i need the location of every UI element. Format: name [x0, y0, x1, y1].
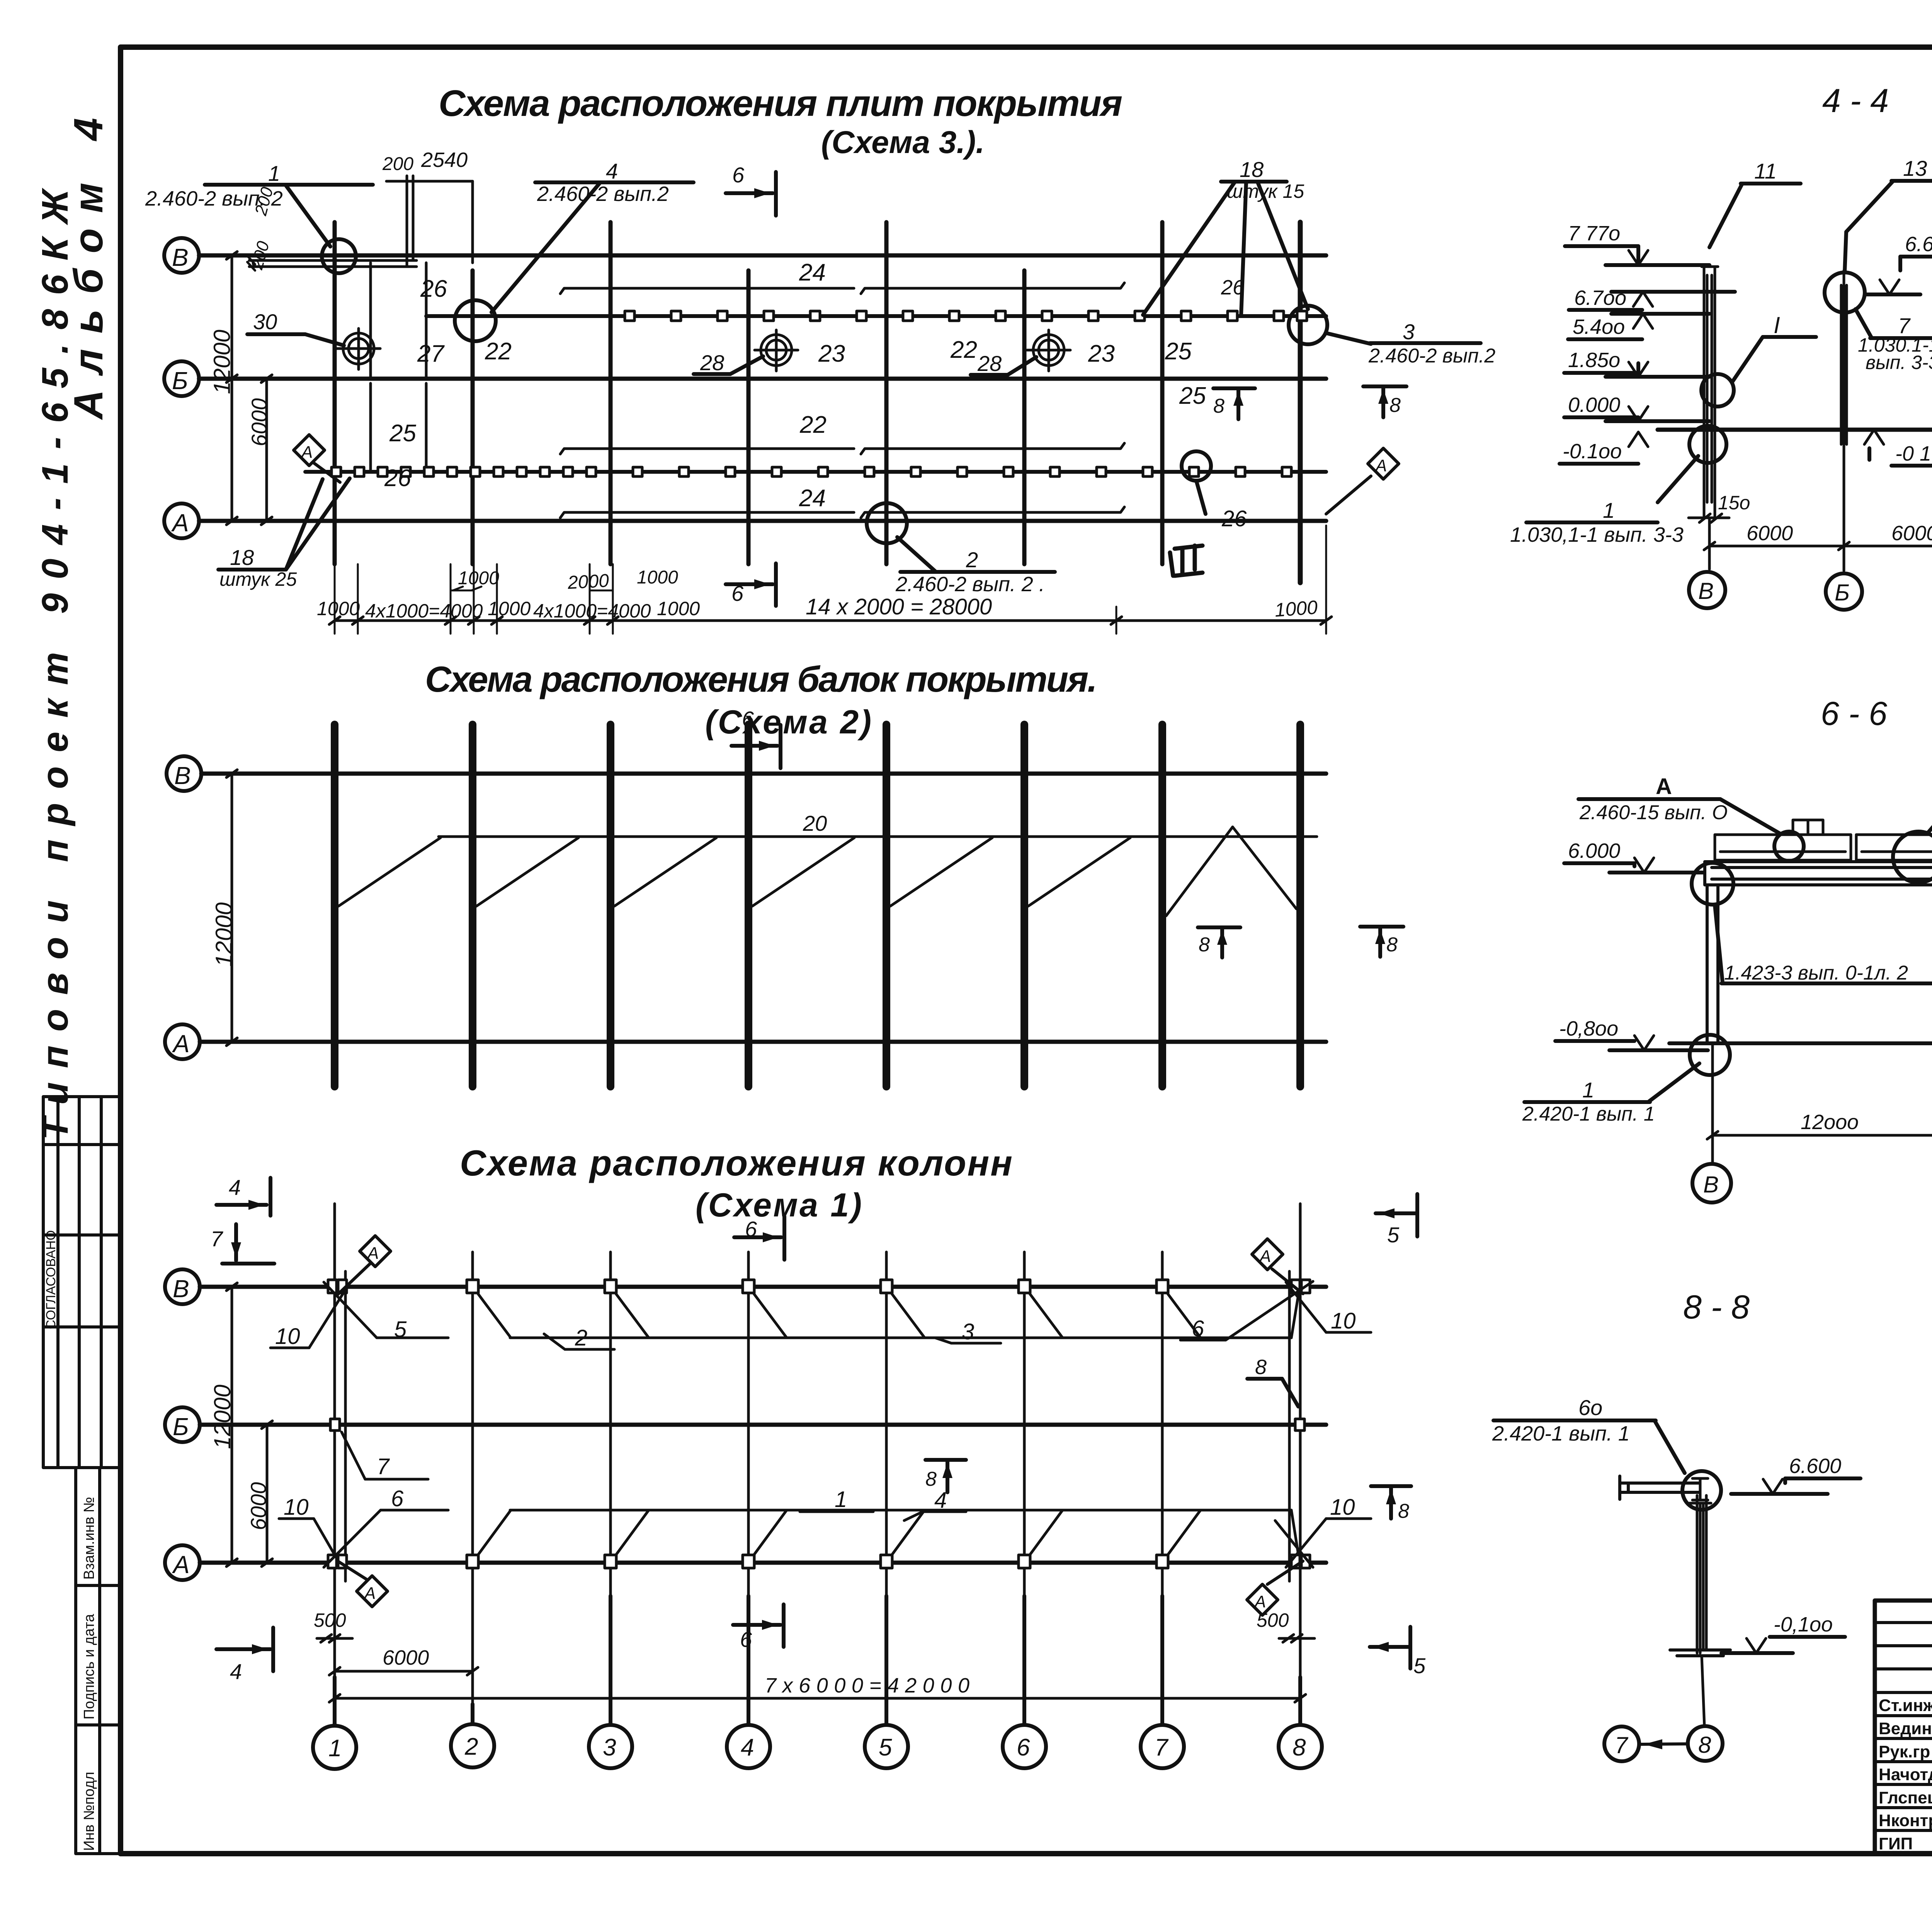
dim 500 left — [314, 1586, 352, 1677]
title scheme 3 — [439, 83, 1122, 160]
svg-text:2: 2 — [966, 548, 978, 572]
svg-text:I: I — [1774, 312, 1780, 338]
SECTION: scheme1 — [165, 1143, 1426, 1769]
diamond A left — [294, 435, 340, 482]
svg-text:10: 10 — [284, 1495, 309, 1520]
svg-text:1000: 1000 — [1274, 596, 1318, 621]
svg-text:26: 26 — [420, 276, 447, 302]
svg-text:6: 6 — [740, 1627, 752, 1652]
section mark 6 — [731, 707, 781, 768]
svg-text:25: 25 — [1165, 338, 1192, 365]
axis bubbles В Б А — [1689, 572, 1932, 610]
column B (section) — [1702, 267, 1718, 516]
grid bubble B — [165, 1269, 200, 1304]
detail circle top right — [1893, 832, 1932, 883]
svg-text:500: 500 — [314, 1609, 346, 1631]
svg-text:2000: 2000 — [567, 570, 610, 593]
svg-text:11: 11 — [1754, 159, 1777, 183]
svg-text:10: 10 — [275, 1324, 300, 1349]
detail circle B mid — [1701, 374, 1734, 407]
diamond A row A left — [338, 1561, 388, 1607]
svg-text:Нконтр: Нконтр — [1879, 1811, 1932, 1830]
svg-text:4: 4 — [934, 1488, 947, 1513]
svg-text:1000: 1000 — [657, 598, 700, 619]
svg-text:20: 20 — [803, 811, 827, 835]
svg-text:1000: 1000 — [488, 598, 531, 619]
elevation 1.850 — [1564, 349, 1709, 377]
svg-text:4: 4 — [606, 159, 618, 183]
svg-text:6.600: 6.600 — [1789, 1454, 1841, 1478]
dim 500 right — [1257, 1586, 1315, 1677]
section mark 5 top right — [1376, 1194, 1417, 1247]
svg-text:ГИП: ГИП — [1879, 1834, 1913, 1853]
svg-text:А: А — [172, 1030, 190, 1058]
svg-text:6.600: 6.600 — [1905, 233, 1932, 256]
svg-text:5: 5 — [879, 1734, 892, 1761]
svg-text:1.85о: 1.85о — [1568, 349, 1620, 372]
dim 12000 — [1707, 1043, 1932, 1163]
svg-text:А: А — [1374, 456, 1387, 475]
svg-text:22: 22 — [950, 337, 977, 363]
elevation 5.400 — [1568, 314, 1709, 339]
leader 1 2.460-2 vyp 2 — [145, 161, 373, 247]
section mark 8 up left — [1213, 388, 1255, 419]
section mark 4 top — [216, 1175, 270, 1216]
ground line 6-6 — [1669, 1041, 1932, 1045]
braces diagonals — [338, 827, 1296, 916]
column 8-8 — [1697, 1495, 1706, 1653]
roof slabs on beam — [1715, 820, 1932, 860]
svg-text:1: 1 — [1603, 498, 1615, 522]
axis bubbles В А — [1692, 1164, 1932, 1203]
svg-text:Вединж: Вединж — [1879, 1719, 1932, 1738]
corbel circle — [1682, 1471, 1721, 1510]
grid line А — [200, 1561, 1326, 1565]
grid line А — [200, 1040, 1326, 1044]
elevation 6.700 — [1569, 286, 1735, 310]
svg-text:Подпись и дата: Подпись и дата — [81, 1614, 97, 1720]
svg-text:10: 10 — [1330, 1495, 1355, 1520]
elevation 6.600 — [1731, 1454, 1861, 1494]
bay labels B band — [420, 259, 1245, 302]
band 4 labels — [384, 465, 1247, 531]
X-cross col1 row B leaders — [270, 1282, 1001, 1349]
grid line B — [201, 772, 1326, 776]
svg-text:23: 23 — [818, 340, 845, 367]
SECTION: titleblock — [1875, 1434, 1932, 1884]
svg-text:2.420-1 вып. 1: 2.420-1 вып. 1 — [1492, 1422, 1630, 1445]
svg-text:1.030,1-1 вып. 3-3: 1.030,1-1 вып. 3-3 — [1510, 523, 1684, 546]
svg-text:Б: Б — [1835, 580, 1850, 606]
svg-text:26: 26 — [384, 465, 411, 492]
svg-text:25: 25 — [389, 420, 416, 447]
base detail circle — [1690, 1035, 1730, 1075]
leader 8 mid right — [1247, 1356, 1298, 1407]
svg-text:13: 13 — [1903, 156, 1927, 180]
svg-text:8 - 8: 8 - 8 — [1683, 1289, 1750, 1326]
svg-text:8: 8 — [1199, 934, 1210, 956]
SECTION: scheme2 — [165, 659, 1403, 1087]
label I — [1732, 312, 1816, 383]
svg-text:(Схема 2): (Схема 2) — [705, 704, 871, 741]
svg-text:6: 6 — [732, 163, 745, 187]
section mark 6 bottom — [726, 563, 776, 606]
svg-text:6000: 6000 — [246, 1482, 270, 1530]
leader 28 to target2 — [694, 372, 730, 376]
grid line Б — [199, 377, 1326, 381]
svg-text:4 - 4: 4 - 4 — [1822, 82, 1889, 119]
detail circle Б top — [1825, 272, 1865, 313]
band 3 labels — [389, 383, 1206, 447]
svg-text:6000: 6000 — [383, 1646, 429, 1669]
svg-text:1.423-3 вып. 0-1л. 2: 1.423-3 вып. 0-1л. 2 — [1724, 962, 1908, 984]
svg-text:14 х 2000 = 28000: 14 х 2000 = 28000 — [806, 594, 992, 619]
svg-text:12000: 12000 — [209, 1385, 235, 1449]
section mark 8 left — [1198, 927, 1240, 958]
svg-text:22: 22 — [799, 412, 827, 438]
elevation -0.800 — [1555, 1017, 1708, 1050]
section mark 8 up right — [1363, 386, 1406, 417]
label 1 1.030.1-1 vyp 3-3 — [1510, 498, 1684, 546]
svg-text:0.000: 0.000 — [1568, 393, 1620, 417]
svg-text:Инв №подл: Инв №подл — [81, 1772, 97, 1851]
svg-text:28: 28 — [977, 351, 1002, 376]
detail circle at B col1 — [322, 239, 356, 273]
dim 200 2540 top — [386, 180, 473, 183]
svg-text:А: А — [366, 1244, 379, 1263]
svg-text:В: В — [174, 762, 191, 789]
slab joint row B-Б — [426, 311, 1326, 321]
title scheme 2 — [425, 659, 1097, 741]
column Б (section) — [1841, 270, 1847, 444]
line to bubble 8 — [1702, 1656, 1704, 1726]
detail circle right of row B — [1289, 306, 1327, 344]
svg-text:15о: 15о — [1718, 492, 1750, 514]
svg-text:вып. 3-3: вып. 3-3 — [1866, 352, 1932, 373]
svg-text:А: А — [363, 1584, 376, 1603]
witness drops for 1000 dims — [335, 526, 1326, 634]
svg-text:6: 6 — [1192, 1316, 1204, 1341]
attribute boxes — [76, 1468, 121, 1854]
svg-text:СОГЛАСОВАНО: СОГЛАСОВАНО — [44, 1230, 58, 1329]
svg-text:18: 18 — [1240, 157, 1264, 182]
section mark 7 down — [211, 1224, 274, 1264]
elevation 7.770 — [1565, 222, 1709, 265]
project designation rotated text — [34, 118, 111, 1140]
svg-text:23: 23 — [1088, 340, 1115, 367]
elevation -0.100 — [1721, 1613, 1845, 1653]
svg-text:2.460-2 вып.2: 2.460-2 вып.2 — [1368, 345, 1495, 367]
svg-text:1: 1 — [1582, 1078, 1594, 1102]
slab edge verticals bay1 — [369, 263, 372, 379]
soglasovano table — [43, 1097, 121, 1468]
svg-text:3: 3 — [962, 1319, 974, 1344]
base ticks 150 — [1689, 491, 1932, 522]
svg-text:(Схема 3.).: (Схема 3.). — [821, 125, 985, 160]
svg-text:6 - 6: 6 - 6 — [1821, 695, 1887, 732]
svg-text:25: 25 — [1179, 383, 1206, 409]
SECTION: scheme3 — [145, 83, 1495, 634]
dim 6000 6000 — [1704, 441, 1932, 571]
svg-text:В: В — [173, 1275, 189, 1303]
section mark 8 right — [1360, 927, 1403, 957]
column squares row Б ends — [330, 1419, 1304, 1431]
svg-text:А: А — [1253, 1592, 1266, 1611]
svg-text:5: 5 — [1387, 1223, 1400, 1247]
SECTION: sec66 — [1522, 695, 1932, 1203]
title scheme 1 — [460, 1143, 1012, 1224]
svg-text:2540: 2540 — [421, 148, 468, 172]
SECTION: sec88 — [1492, 1289, 1861, 1761]
grid line B — [199, 253, 1326, 258]
main stamp outer — [1875, 1601, 1932, 1854]
-0.100 right mark — [1864, 430, 1932, 466]
section mark 8 up right of row A — [1371, 1486, 1411, 1522]
svg-text:Схема расположения плит пок: Схема расположения плит покрытия — [439, 83, 1122, 124]
X-cross col8 row B leaders — [1180, 1281, 1371, 1340]
svg-text:А: А — [300, 443, 313, 462]
svg-text:В: В — [172, 243, 189, 271]
svg-text:6000: 6000 — [1891, 522, 1932, 545]
leader 11 — [1709, 159, 1801, 247]
6000 dim left — [265, 379, 268, 521]
ground tick 8-8 — [1670, 1650, 1730, 1656]
grid bubble Б — [165, 1407, 200, 1442]
circle on lower joint row — [1182, 451, 1211, 481]
svg-text:6о: 6о — [1578, 1395, 1602, 1420]
mark II — [1170, 546, 1202, 576]
column squares row B — [328, 1280, 1310, 1293]
elevation 0.000 — [1564, 393, 1709, 421]
label 18 штук 15 — [1143, 157, 1308, 315]
label 60 2.420-1 vyp 1 — [1492, 1395, 1685, 1473]
svg-text:6000: 6000 — [247, 398, 271, 446]
columns 6-6 — [1707, 885, 1932, 1043]
leader 28 to target3 — [971, 373, 1008, 377]
grid bubble А — [165, 1024, 200, 1059]
svg-text:4х1000=4000: 4х1000=4000 — [365, 600, 483, 622]
X-cross col8 row A leaders — [1275, 1519, 1371, 1567]
grid line Б — [200, 1423, 1326, 1427]
main dim line bottom — [329, 617, 1332, 624]
svg-text:30: 30 — [253, 310, 277, 334]
svg-text:2.460-2 вып. 2: 2.460-2 вып. 2 — [145, 187, 283, 210]
svg-text:8: 8 — [1389, 394, 1401, 417]
leader to 1.030 text bottom-left — [1658, 456, 1698, 502]
elevation 6.000 — [1564, 839, 1708, 873]
svg-text:Схема расположения колонн: Схема расположения колонн — [460, 1143, 1012, 1183]
label 12 2.460-2 right — [1926, 776, 1932, 835]
svg-text:4: 4 — [741, 1734, 754, 1761]
svg-text:А: А — [1656, 774, 1672, 799]
anchor target 2 — [755, 330, 798, 371]
svg-text:24: 24 — [799, 485, 826, 512]
svg-text:2.460-2 вып. 2 .: 2.460-2 вып. 2 . — [895, 573, 1045, 596]
slab joint row Б-А — [305, 467, 1326, 476]
svg-text:8: 8 — [1386, 934, 1398, 956]
svg-text:Глспец: Глспец — [1879, 1788, 1932, 1807]
svg-text:2.460-15 вып. О: 2.460-15 вып. О — [1579, 801, 1728, 824]
svg-text:2: 2 — [464, 1733, 478, 1760]
leader 4 2.460-2 vyp 2 — [492, 159, 694, 312]
label А 2.460-15 — [1578, 774, 1781, 834]
braces row B — [478, 1294, 1298, 1338]
anchor target 1 — [337, 328, 380, 369]
dim texts 1000 4x1000 — [317, 598, 700, 622]
staff table — [1875, 1601, 1932, 1854]
leader 13 — [1845, 156, 1932, 272]
bracket 22 mid band — [560, 443, 1124, 454]
svg-text:6: 6 — [391, 1486, 404, 1511]
section mark 6 top — [734, 1216, 784, 1260]
label 7 1.030.1-1 — [1855, 309, 1932, 373]
svg-text:Взам.инв №: Взам.инв № — [81, 1497, 97, 1580]
beam stub — [1620, 1476, 1699, 1499]
label 1.423-3 — [1715, 905, 1932, 984]
elevation -0.100 — [1560, 432, 1648, 464]
detail circle on line A — [867, 503, 907, 543]
svg-text:7: 7 — [1155, 1734, 1169, 1761]
svg-text:8: 8 — [1398, 1500, 1409, 1522]
braces row A — [478, 1510, 1298, 1555]
SECTION: left margin — [34, 118, 121, 1854]
column bubbles 1-8 — [313, 1596, 1322, 1769]
detail circle col2 slab row — [455, 300, 496, 341]
svg-text:1: 1 — [268, 161, 280, 185]
svg-text:В: В — [1703, 1172, 1719, 1197]
section mark 5 bottom right — [1370, 1627, 1426, 1678]
svg-text:8: 8 — [1698, 1732, 1711, 1758]
svg-text:18: 18 — [230, 545, 254, 570]
svg-text:1000: 1000 — [458, 568, 499, 589]
grid bubble B — [167, 756, 201, 791]
diamond A row B left — [337, 1236, 391, 1295]
svg-text:5.4оо: 5.4оо — [1573, 315, 1625, 338]
svg-text:4: 4 — [229, 1175, 241, 1199]
svg-text:500: 500 — [1257, 1609, 1289, 1631]
svg-text:2.420-1 вып. 1: 2.420-1 вып. 1 — [1522, 1103, 1655, 1125]
svg-text:1000: 1000 — [637, 567, 678, 588]
roof beam 6-6 — [1705, 862, 1932, 885]
diamond A row A right — [1247, 1561, 1303, 1615]
svg-text:-0,8оо: -0,8оо — [1559, 1017, 1618, 1040]
grid line B — [200, 1285, 1326, 1289]
svg-text:Ст.инж: Ст.инж — [1879, 1696, 1932, 1715]
svg-text:6: 6 — [1017, 1734, 1030, 1761]
12000 dim left — [231, 255, 233, 521]
svg-text:штук 25: штук 25 — [219, 568, 297, 590]
staff names — [1879, 1696, 1932, 1853]
grid bubble А — [164, 503, 199, 538]
anchor target 3 — [1027, 330, 1070, 371]
svg-text:Начотд: Начотд — [1879, 1765, 1932, 1784]
svg-text:6.000: 6.000 — [1568, 839, 1620, 862]
slab row bracket 24 top — [560, 283, 1124, 294]
svg-text:-0 100: -0 100 — [1895, 442, 1932, 465]
svg-text:8: 8 — [1255, 1356, 1267, 1379]
arrow 8 to 7 — [1641, 1739, 1687, 1749]
elevation 6.600 — [1865, 233, 1932, 294]
svg-text:7: 7 — [1615, 1732, 1629, 1758]
labels row A — [284, 1454, 1355, 1520]
svg-text:8: 8 — [1293, 1734, 1306, 1761]
svg-text:Б: Б — [173, 1413, 189, 1441]
diamond A right — [1326, 448, 1399, 514]
svg-text:200: 200 — [382, 154, 413, 174]
grid line А — [199, 519, 1326, 523]
svg-text:Б: Б — [172, 367, 188, 395]
roof beams — [335, 725, 1300, 1087]
leader 2 2.460-2 vyp 2 bottom — [895, 537, 1055, 596]
SECTION: sec44 — [1510, 82, 1932, 610]
svg-text:-0.1оо: -0.1оо — [1563, 440, 1622, 463]
brace line — [439, 835, 1317, 838]
svg-text:2.460-2 вып.2: 2.460-2 вып.2 — [537, 182, 669, 206]
bubble 8 — [1688, 1726, 1723, 1761]
detail circle left joint — [1692, 863, 1733, 905]
svg-text:2: 2 — [575, 1325, 587, 1351]
svg-text:3: 3 — [1403, 320, 1415, 344]
svg-text:Схема расположения балок по: Схема расположения балок покрытия. — [425, 659, 1097, 699]
leader 3 2.460-2 vyp 2 right — [1326, 320, 1495, 367]
svg-text:4: 4 — [230, 1659, 242, 1684]
label 18 штук 25 — [218, 478, 350, 590]
svg-text:5: 5 — [1413, 1653, 1426, 1678]
svg-text:10: 10 — [1331, 1308, 1356, 1334]
dim 6000 first bay — [329, 1588, 478, 1704]
section mark 4 bottom — [216, 1628, 273, 1684]
svg-text:А: А — [1259, 1247, 1271, 1266]
svg-text:7: 7 — [211, 1226, 223, 1251]
dim 7x6000 — [329, 1674, 1306, 1702]
svg-text:24: 24 — [799, 259, 826, 286]
svg-text:12000: 12000 — [209, 330, 235, 394]
svg-text:6000: 6000 — [1747, 522, 1793, 545]
svg-text:12ооо: 12ооо — [1801, 1111, 1859, 1134]
X-cross col1 row A leaders — [279, 1432, 966, 1567]
svg-text:3: 3 — [603, 1734, 616, 1761]
svg-text:-0,1оо: -0,1оо — [1774, 1613, 1833, 1636]
slab edge outline at B — [247, 176, 473, 270]
svg-text:8: 8 — [925, 1468, 937, 1490]
svg-text:22: 22 — [485, 338, 512, 365]
labels row B — [275, 1308, 1356, 1351]
svg-text:1000: 1000 — [317, 598, 360, 619]
detail circle top mid — [1774, 832, 1804, 861]
columns verticals scheme1 — [335, 1204, 1300, 1596]
grid bubble А — [165, 1545, 200, 1580]
svg-text:А: А — [172, 1551, 190, 1579]
svg-text:В: В — [1698, 578, 1714, 604]
svg-text:7: 7 — [377, 1454, 390, 1479]
ground line 4-4 — [1658, 428, 1932, 432]
svg-text:27: 27 — [417, 340, 445, 367]
column axis verticals — [335, 222, 1300, 583]
svg-text:А: А — [171, 509, 189, 537]
detail circle B base — [1689, 426, 1726, 463]
grid bubble Б — [164, 361, 199, 396]
band 2 labels — [417, 337, 1192, 376]
svg-text:(Схема 1): (Схема 1) — [696, 1187, 862, 1224]
section mark 6 bottom — [733, 1604, 784, 1652]
section mark 6 top — [726, 163, 776, 216]
mini dim 1000 above — [451, 567, 678, 593]
I beam inside circle — [1689, 1478, 1711, 1503]
svg-text:1: 1 — [328, 1735, 342, 1762]
svg-text:4х1000=4000: 4х1000=4000 — [533, 600, 651, 622]
grid bubble B — [164, 238, 199, 273]
svg-text:8: 8 — [1213, 395, 1225, 417]
